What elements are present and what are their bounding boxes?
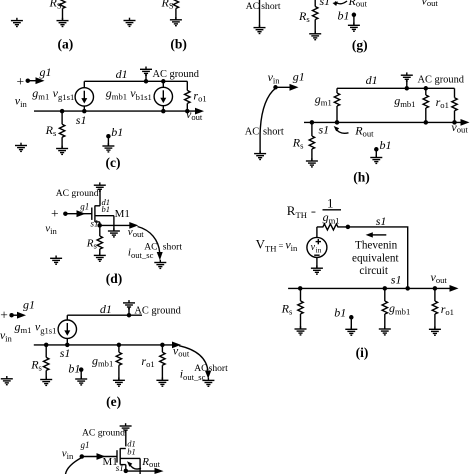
wire b1 to ground (c): [107, 136, 109, 146]
curved arrow to node s1 (f): [129, 464, 141, 469]
wire b1 to ground (h): [375, 149, 377, 157]
node v_in (f): [80, 454, 85, 459]
AC ground symbol (c): [140, 67, 152, 84]
svg-text:ro1: ro1: [441, 302, 454, 317]
node g_mb1 top (e): [117, 343, 122, 348]
node b1 (e): [79, 367, 84, 372]
svg-text:Rs: Rs: [298, 9, 310, 24]
svg-text:b1: b1: [338, 8, 350, 22]
svg-text:s1: s1: [319, 123, 330, 137]
wire stub above current source 2 (c): [162, 81, 164, 87]
wire bottom rail with v_out arrow (e): [34, 344, 173, 346]
svg-text:b1: b1: [334, 306, 346, 320]
wire bottom rail with v_out arrow (h): [304, 121, 462, 123]
node s1 junction (i): [405, 286, 410, 291]
svg-text:s1: s1: [320, 0, 331, 8]
node s1 (h): [310, 120, 315, 125]
node b1 (i): [349, 315, 354, 320]
ground under R_s (d): [94, 253, 106, 262]
ground under g_mb1 (e): [113, 378, 125, 387]
wire top rail d1 (h): [337, 87, 455, 89]
svg-text:vin: vin: [62, 447, 74, 460]
svg-text:Rout: Rout: [348, 0, 368, 9]
svg-text:+: +: [0, 308, 8, 323]
wire voltage source to ground (i): [316, 257, 318, 268]
svg-text:s1: s1: [91, 218, 99, 228]
svg-text:+: +: [51, 206, 59, 221]
svg-text:g1: g1: [40, 65, 52, 79]
AC short curve with arrow (d): [138, 227, 163, 261]
svg-text:RTH=: RTH=: [287, 203, 316, 220]
ground under g_mb1 (i): [379, 326, 391, 335]
svg-text:Rs: Rs: [281, 302, 293, 317]
wire stub above current source 1 (c): [83, 81, 85, 87]
svg-text:equivalent: equivalent: [352, 253, 399, 265]
svg-text:AC: AC: [246, 1, 259, 12]
svg-text:ro1: ro1: [436, 95, 449, 110]
ground AC short (h): [254, 151, 266, 160]
svg-text:AC: AC: [245, 126, 260, 137]
wire gate arrow (e): [12, 314, 20, 316]
svg-text:b1: b1: [380, 138, 392, 152]
wire bottom rail with v_out arrow (c): [34, 110, 197, 112]
svg-text:(g): (g): [352, 38, 368, 53]
transistor M1 (d): [92, 206, 114, 232]
svg-text:(i): (i): [356, 345, 369, 360]
wire bottom rail with v_out arrow (i): [288, 287, 450, 289]
wire s1 top rail and right vertical (i): [348, 227, 408, 289]
svg-text:d1: d1: [116, 67, 128, 81]
svg-text:AC ground: AC ground: [153, 69, 200, 80]
svg-text:(b): (b): [170, 37, 187, 52]
resistor R_s (i): [298, 288, 303, 329]
svg-text:b1: b1: [111, 125, 123, 139]
node below source 1 (c): [82, 109, 87, 114]
ground under b1 (c): [102, 143, 114, 152]
ground under R_s (i): [295, 326, 307, 335]
svg-text:vin: vin: [15, 93, 28, 108]
ground (g) under R_s: [309, 31, 321, 40]
svg-text:s1: s1: [116, 463, 124, 473]
svg-text:(d): (d): [106, 271, 123, 286]
node b1 (h): [374, 147, 379, 152]
node below source 2 (c): [161, 109, 166, 114]
svg-text:AC ground: AC ground: [418, 74, 465, 85]
svg-text:Rout: Rout: [141, 456, 160, 469]
resistor R_TH horizontal (i): [317, 224, 348, 230]
svg-text:vin: vin: [45, 223, 57, 236]
wire source to R_out arrow (f): [126, 470, 156, 472]
node g_mb1 bottom (h): [424, 120, 429, 125]
wire gate arrow (d): [65, 213, 91, 215]
wire stub below current source (e): [66, 338, 68, 345]
node s1 junction (c): [60, 109, 65, 114]
svg-text:vout: vout: [431, 270, 448, 285]
node g_mb1 top (i): [383, 286, 388, 291]
wire top to R_s (g): [314, 0, 316, 7]
svg-text:g1: g1: [23, 298, 35, 312]
svg-text:d1: d1: [366, 73, 378, 87]
svg-text:ro1: ro1: [193, 88, 206, 103]
svg-text:gmb1vb1s1: gmb1vb1s1: [106, 86, 152, 102]
node r_o1 top (i): [433, 286, 438, 291]
resistor R_s (h): [309, 122, 314, 161]
wire R_s (a) to ground: [62, 8, 64, 20]
node v_in (d): [63, 211, 68, 216]
wire gate arrow (h): [276, 86, 293, 88]
svg-text:ro1: ro1: [141, 354, 154, 369]
node s1 (d): [97, 223, 102, 228]
wire gate arrow (f): [82, 456, 117, 458]
svg-text:s1: s1: [376, 214, 387, 228]
ground (g) under b1: [348, 23, 360, 32]
ground under R_s (c): [56, 146, 68, 155]
current source g_m1 (c): [75, 88, 93, 106]
ground under b1 (e): [75, 376, 87, 385]
transistor M1 (f): [117, 448, 140, 474]
node g_mb1 top (h): [424, 86, 429, 91]
svg-text:circuit: circuit: [359, 265, 388, 277]
wire R_s (g) to ground: [314, 20, 316, 34]
Thevenin equivalent circuit label (i): [352, 240, 399, 277]
AC short curve cropped (f): [66, 458, 82, 474]
ground under b1 (h): [370, 155, 382, 164]
svg-text:Rout: Rout: [354, 124, 374, 139]
svg-text:b1: b1: [102, 204, 111, 214]
svg-text:in: in: [316, 245, 322, 254]
svg-text:Rs: Rs: [292, 135, 304, 150]
resistor r_o1 (h): [452, 88, 457, 122]
voltage source V_TH (i): [307, 237, 327, 257]
svg-text:M1: M1: [115, 208, 130, 220]
node b1 (c): [106, 134, 111, 139]
R_TH formula (i): [287, 196, 341, 226]
svg-text:short: short: [209, 363, 229, 374]
node s1 (f): [124, 469, 129, 474]
node r_o1 top (e): [160, 343, 165, 348]
resistor r_o1 (e): [160, 345, 165, 380]
svg-text:gm1: gm1: [323, 210, 340, 225]
node g1 (e): [9, 313, 14, 318]
ground under R_s (h): [306, 158, 318, 167]
AC ground symbol (e): [123, 300, 135, 317]
svg-text:(h): (h): [353, 170, 370, 185]
ground (a) b1: [124, 18, 136, 27]
svg-text:AC ground: AC ground: [82, 427, 125, 438]
node v_in (h): [273, 85, 278, 90]
ground far left (e): [1, 376, 13, 385]
svg-text:gmb1: gmb1: [389, 301, 410, 316]
node g_m1 bottom (h): [335, 120, 340, 125]
svg-text:gm1vg1s1: gm1vg1s1: [15, 320, 57, 336]
svg-text:vin: vin: [0, 328, 13, 344]
node s1 junction (e): [44, 343, 49, 348]
resistor R_s (d): [97, 225, 102, 255]
svg-text:Rs: Rs: [30, 358, 42, 373]
resistor R_s (a): [60, 0, 65, 8]
svg-text:gmb1: gmb1: [92, 353, 113, 368]
ground (b) under R_s: [170, 17, 182, 26]
wire stub below current source 2 (c): [162, 106, 164, 111]
wire b1 to ground (i): [350, 317, 352, 329]
svg-text:Rs: Rs: [86, 238, 98, 251]
svg-text:Rs: Rs: [45, 123, 57, 138]
svg-text:1: 1: [327, 196, 334, 211]
current source g_mb1 (c): [154, 87, 172, 105]
resistor r_o1 (i): [432, 288, 437, 329]
wire stub above current source (e): [66, 315, 68, 320]
ground (a) left: [11, 18, 23, 27]
wire top rail d1 (e): [67, 314, 142, 316]
svg-text:vin: vin: [268, 70, 281, 85]
wire voltage source to R_TH resistor (i): [316, 227, 318, 238]
ground (g) AC short: [254, 25, 266, 34]
node after R_TH (i): [346, 225, 351, 230]
svg-text:RS: RS: [161, 0, 174, 10]
node b1 (g): [352, 13, 357, 17]
ground far left (c): [15, 143, 27, 152]
wire source to v_out arrow (d): [100, 224, 131, 226]
ground under voltage source (i): [311, 265, 323, 274]
svg-text:short: short: [263, 126, 284, 137]
svg-text:d1: d1: [100, 302, 112, 316]
node R_s top (i): [298, 286, 303, 291]
wire b1 (g) to ground: [353, 15, 355, 25]
svg-text:Thevenin: Thevenin: [355, 240, 398, 252]
svg-text:g1: g1: [293, 70, 305, 84]
node below current source (e): [65, 343, 70, 348]
svg-text:+: +: [17, 74, 25, 89]
resistor R_s (c): [59, 111, 64, 148]
svg-text:(e): (e): [106, 394, 121, 409]
svg-text:b1: b1: [68, 361, 80, 375]
resistor g_m1 (h): [334, 88, 339, 122]
resistor r_o1 (c): [185, 81, 190, 111]
ground bulk b1 (d): [108, 228, 120, 237]
wire stub below current source 1 (c): [83, 106, 85, 111]
svg-text:vout: vout: [422, 0, 439, 8]
left arrow Thevenin (i): [366, 232, 387, 237]
svg-text:s1: s1: [76, 113, 87, 127]
ground under r_o1 (i): [429, 327, 441, 336]
ground under b1 (i): [345, 327, 357, 336]
svg-text:short: short: [261, 1, 281, 12]
curved arrow to node s1 (g): [335, 1, 347, 4]
current source g_m1 (e): [58, 320, 76, 338]
curved arrow to node s1 (h): [336, 129, 349, 134]
svg-text:g1: g1: [80, 202, 89, 212]
ground under R_s (e): [40, 377, 52, 386]
resistor g_mb1 (e): [116, 345, 121, 380]
svg-text:s1: s1: [60, 346, 71, 360]
svg-text:gmb1: gmb1: [394, 94, 415, 109]
svg-text:(a): (a): [58, 37, 74, 52]
resistor R_s (e): [44, 345, 49, 380]
wire gate arrow (c): [28, 80, 38, 82]
svg-text:gm1vg1s1: gm1vg1s1: [32, 86, 74, 102]
AC ground symbol (f): [120, 423, 132, 446]
svg-text:s1: s1: [391, 272, 402, 286]
node at current source 2 top (c): [161, 79, 166, 84]
ground AC short (e): [202, 378, 214, 387]
ground AC short (d): [154, 260, 166, 269]
ground under v_in (d): [50, 255, 62, 264]
ground under r_o1 (e): [156, 378, 168, 387]
wire top rail d1 (c): [84, 80, 187, 82]
AC short curve (h): [260, 88, 275, 153]
wire R_s (b) to ground: [175, 8, 177, 19]
resistor g_mb1 (h): [423, 88, 428, 122]
node g1 (c): [26, 78, 31, 83]
svg-text:AC ground: AC ground: [134, 305, 181, 316]
resistor R_s (g): [313, 7, 318, 20]
svg-text:VTH=vin: VTH=vin: [256, 237, 298, 254]
wire b1 to ground (e): [80, 370, 82, 379]
wire AC short (g) to ground: [259, 0, 261, 28]
resistor g_mb1 (i): [382, 288, 387, 329]
AC ground symbol (d): [94, 182, 106, 205]
svg-text:AC ground: AC ground: [56, 188, 99, 199]
ground (a) under R_s: [57, 18, 69, 27]
svg-text:g1: g1: [81, 440, 90, 450]
svg-text:(c): (c): [106, 155, 121, 170]
svg-text:gm1: gm1: [315, 92, 332, 107]
svg-text:short: short: [163, 241, 183, 252]
AC ground symbol (h): [401, 72, 413, 90]
node below r_o1 (c): [185, 109, 190, 114]
AC short curve with arrow (e): [179, 346, 211, 379]
resistor R_s (b): [173, 0, 178, 8]
node v_out (h): [452, 120, 457, 125]
svg-text:b1: b1: [127, 446, 136, 456]
